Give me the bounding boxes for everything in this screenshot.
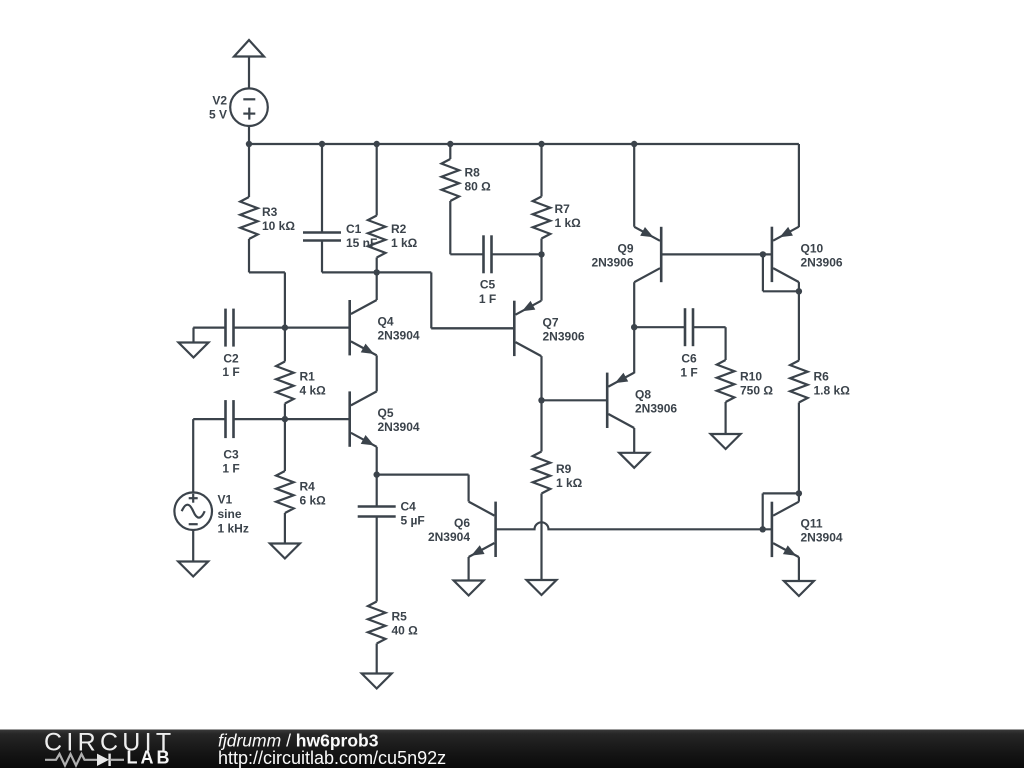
svg-text:2N3906: 2N3906 bbox=[635, 402, 677, 416]
svg-text:40 Ω: 40 Ω bbox=[392, 624, 419, 638]
svg-text:C6: C6 bbox=[681, 352, 697, 366]
svg-text:Q10: Q10 bbox=[801, 242, 824, 256]
svg-text:2N3904: 2N3904 bbox=[378, 329, 420, 343]
svg-text:R10: R10 bbox=[740, 370, 762, 384]
svg-text:1 F: 1 F bbox=[222, 462, 239, 476]
svg-text:2N3906: 2N3906 bbox=[801, 256, 843, 270]
svg-text:15 nF: 15 nF bbox=[346, 236, 377, 250]
svg-text:5 V: 5 V bbox=[209, 108, 227, 122]
svg-text:1 F: 1 F bbox=[680, 366, 697, 380]
svg-text:Q4: Q4 bbox=[378, 315, 394, 329]
svg-text:1 F: 1 F bbox=[222, 365, 239, 379]
svg-text:2N3904: 2N3904 bbox=[428, 530, 470, 544]
svg-text:Q9: Q9 bbox=[617, 242, 633, 256]
svg-text:2N3906: 2N3906 bbox=[543, 330, 585, 344]
svg-text:1.8 kΩ: 1.8 kΩ bbox=[814, 384, 851, 398]
svg-text:C3: C3 bbox=[223, 448, 239, 462]
svg-text:V2: V2 bbox=[212, 94, 227, 108]
svg-text:Q5: Q5 bbox=[378, 406, 394, 420]
svg-text:1 kΩ: 1 kΩ bbox=[391, 236, 418, 250]
svg-text:C5: C5 bbox=[480, 278, 496, 292]
svg-text:R9: R9 bbox=[556, 462, 572, 476]
svg-text:10 kΩ: 10 kΩ bbox=[262, 219, 295, 233]
svg-text:4 kΩ: 4 kΩ bbox=[300, 384, 327, 398]
svg-text:R2: R2 bbox=[391, 222, 407, 236]
svg-text:1 kHz: 1 kHz bbox=[218, 522, 249, 536]
svg-text:80 Ω: 80 Ω bbox=[465, 180, 492, 194]
svg-text:C2: C2 bbox=[223, 352, 239, 366]
svg-text:R7: R7 bbox=[555, 202, 571, 216]
svg-text:Q8: Q8 bbox=[635, 388, 651, 402]
svg-text:2N3904: 2N3904 bbox=[801, 531, 843, 545]
svg-text:C1: C1 bbox=[346, 222, 362, 236]
svg-text:2N3904: 2N3904 bbox=[378, 420, 420, 434]
svg-text:750 Ω: 750 Ω bbox=[740, 384, 773, 398]
svg-text:R1: R1 bbox=[300, 370, 316, 384]
svg-text:Q11: Q11 bbox=[801, 517, 823, 531]
svg-text:http://circuitlab.com/cu5n92z: http://circuitlab.com/cu5n92z bbox=[218, 748, 446, 768]
svg-text:1 kΩ: 1 kΩ bbox=[555, 216, 582, 230]
svg-text:V1: V1 bbox=[218, 493, 233, 507]
svg-text:R3: R3 bbox=[262, 205, 278, 219]
svg-text:C4: C4 bbox=[401, 500, 417, 514]
svg-text:6 kΩ: 6 kΩ bbox=[300, 494, 327, 508]
svg-text:1 F: 1 F bbox=[479, 292, 496, 306]
svg-text:R5: R5 bbox=[392, 610, 408, 624]
svg-text:2N3906: 2N3906 bbox=[591, 256, 633, 270]
svg-text:R4: R4 bbox=[300, 480, 316, 494]
svg-text:LAB: LAB bbox=[127, 748, 173, 768]
svg-text:Q6: Q6 bbox=[454, 516, 470, 530]
svg-text:sine: sine bbox=[218, 507, 242, 521]
svg-text:R6: R6 bbox=[814, 370, 830, 384]
svg-text:R8: R8 bbox=[465, 166, 481, 180]
svg-text:5 µF: 5 µF bbox=[401, 514, 425, 528]
svg-text:1 kΩ: 1 kΩ bbox=[556, 476, 583, 490]
svg-text:Q7: Q7 bbox=[543, 316, 559, 330]
